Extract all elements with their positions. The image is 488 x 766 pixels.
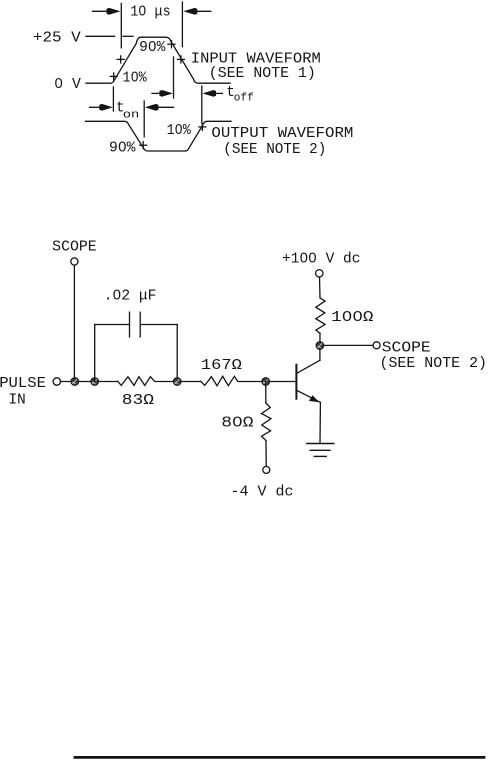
resistor R3 80 ohm zigzag xyxy=(262,403,271,441)
svg-text:+25 V: +25 V xyxy=(33,31,81,47)
junction node B capacitor left xyxy=(91,378,99,386)
junction node A scope tap xyxy=(71,378,79,386)
svg-text:90%: 90% xyxy=(139,40,165,56)
svg-text:10%: 10% xyxy=(167,123,191,139)
svg-text:.02 μF: .02 μF xyxy=(104,288,157,304)
t_off dimension left arrow xyxy=(152,90,173,97)
wire t_on dimension left extension line xyxy=(112,87,114,111)
wire capacitor loop left xyxy=(95,325,130,382)
value label t_off xyxy=(226,85,254,104)
transistor Q1 collector lead xyxy=(297,349,320,373)
terminal -4 V dc xyxy=(263,466,270,473)
zero-glyph dot white-out xyxy=(58,9,360,424)
10us dimension right arrow xyxy=(183,8,210,15)
wire pulse input to R1 xyxy=(61,381,118,383)
svg-text:(SEE NOTE 1): (SEE NOTE 1) xyxy=(209,66,316,82)
junction node D base xyxy=(262,378,270,386)
junction collector node E xyxy=(316,342,324,350)
wire t_off dimension left extension line xyxy=(173,57,175,98)
svg-text:(SEE NOTE 2): (SEE NOTE 2) xyxy=(380,356,488,372)
svg-text:SCOPE: SCOPE xyxy=(52,240,96,256)
label PULSE IN xyxy=(0,376,46,409)
svg-text:INPUT WAVEFORM: INPUT WAVEFORM xyxy=(191,52,321,68)
node input 90% tick on falling edge xyxy=(168,41,175,48)
svg-text:SCOPE: SCOPE xyxy=(382,340,431,356)
wire R3 to -4V terminal xyxy=(265,441,267,467)
svg-text:167Ω: 167Ω xyxy=(201,358,242,374)
junction node C capacitor right xyxy=(173,378,181,386)
svg-text:(SEE NOTE 2): (SEE NOTE 2) xyxy=(223,142,326,158)
node input 50% tick on rising edge xyxy=(117,56,124,63)
wire collector node to right scope xyxy=(324,344,374,346)
wire 0V reference line xyxy=(86,82,111,84)
ground xyxy=(307,444,334,457)
svg-text:0 V: 0 V xyxy=(54,77,81,93)
terminal SCOPE probe xyxy=(71,258,78,265)
svg-text:OUTPUT WAVEFORM: OUTPUT WAVEFORM xyxy=(211,126,353,142)
transistor Q1 emitter lead with arrow xyxy=(297,391,321,444)
svg-text:10%: 10% xyxy=(123,71,147,87)
output waveform trace xyxy=(86,121,232,151)
wire scope probe to node A xyxy=(73,265,75,381)
terminal +100 V dc xyxy=(316,270,323,277)
wire 10us dimension left extension line xyxy=(120,4,122,48)
wire +25V reference line xyxy=(86,35,133,37)
wire capacitor loop right xyxy=(140,325,177,382)
wire 10us dimension right extension line xyxy=(181,2,183,47)
node output 10% tick xyxy=(199,123,206,130)
t_off dimension right arrow xyxy=(203,90,223,97)
node input 50% tick on falling edge label anchor xyxy=(177,56,184,63)
svg-text:90%: 90% xyxy=(109,140,136,156)
wire t_off dimension right extension line xyxy=(201,86,203,123)
svg-text:100Ω: 100Ω xyxy=(331,310,374,326)
resistor R2 167 ohm zigzag xyxy=(201,376,238,385)
10us dimension left arrow xyxy=(93,8,121,15)
node input 10% tick xyxy=(110,73,117,80)
resistor R4 100 ohm zigzag xyxy=(316,298,325,334)
svg-text:IN: IN xyxy=(9,393,26,409)
wire R4 to collector node xyxy=(319,333,321,345)
wire R1 to R2 xyxy=(156,381,201,383)
wire +100V to R4 xyxy=(319,277,322,298)
svg-text:off: off xyxy=(234,92,254,104)
t_on dimension left arrow xyxy=(90,104,113,111)
value label t_on xyxy=(116,101,139,122)
svg-text:+100 V dc: +100 V dc xyxy=(282,252,361,268)
t_on dimension right arrow xyxy=(145,104,174,111)
svg-text:83Ω: 83Ω xyxy=(122,393,155,409)
wire t_on dimension right extension line xyxy=(143,101,145,137)
capacitor C1 plates xyxy=(130,312,141,337)
terminal SCOPE right xyxy=(373,342,380,349)
transistor Q1 base bar xyxy=(295,365,297,399)
input waveform trace xyxy=(111,37,231,83)
wire node D to R3 xyxy=(265,382,267,403)
svg-text:on: on xyxy=(123,109,140,121)
wire R2 to base node xyxy=(238,381,296,383)
node output 90% tick xyxy=(140,142,147,149)
label SCOPE (SEE NOTE 2) xyxy=(380,340,488,372)
svg-text:-4 V dc: -4 V dc xyxy=(231,485,294,501)
resistor R1 83 ohm zigzag xyxy=(118,377,155,386)
svg-text:PULSE: PULSE xyxy=(0,376,46,392)
bottom rule xyxy=(75,756,484,759)
svg-text:10 μs: 10 μs xyxy=(130,4,171,20)
terminal PULSE IN xyxy=(53,378,60,385)
